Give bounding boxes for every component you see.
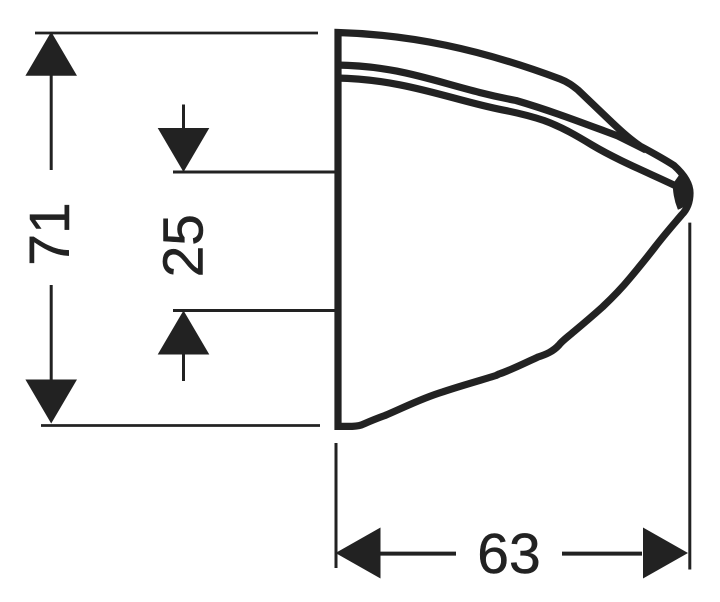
dim63 right extension line	[688, 223, 691, 570]
dim25 lower leader line	[182, 354, 185, 381]
dim25 up arrow	[158, 311, 210, 355]
dim71 up arrow	[25, 32, 77, 76]
dim25 down arrow	[158, 128, 210, 172]
dim25 upper leader line	[182, 105, 185, 130]
holder outline: left wall edge, top edge, nose, bottom edge	[338, 33, 690, 427]
dim25 lower extension line	[173, 309, 337, 312]
svg-text:63: 63	[477, 522, 540, 586]
upper band curve	[336, 65, 646, 150]
svg-text:25: 25	[152, 214, 216, 277]
dim25 upper extension line	[173, 171, 337, 174]
dim63 line right segment	[562, 552, 642, 556]
dim71 down arrow	[25, 380, 77, 424]
dim71 line upper segment	[50, 74, 53, 170]
lower band curve	[336, 78, 676, 186]
nose solid area	[674, 176, 689, 209]
dim63 left extension line	[335, 443, 338, 568]
dim71 top extension line	[35, 32, 318, 35]
dim63 left arrow	[336, 528, 381, 579]
svg-text:71: 71	[18, 202, 82, 265]
dim63 line left segment	[380, 552, 456, 556]
dim63 right arrow	[643, 528, 688, 579]
dim71 line lower segment	[50, 285, 53, 380]
dim71 bottom extension line	[41, 424, 320, 427]
